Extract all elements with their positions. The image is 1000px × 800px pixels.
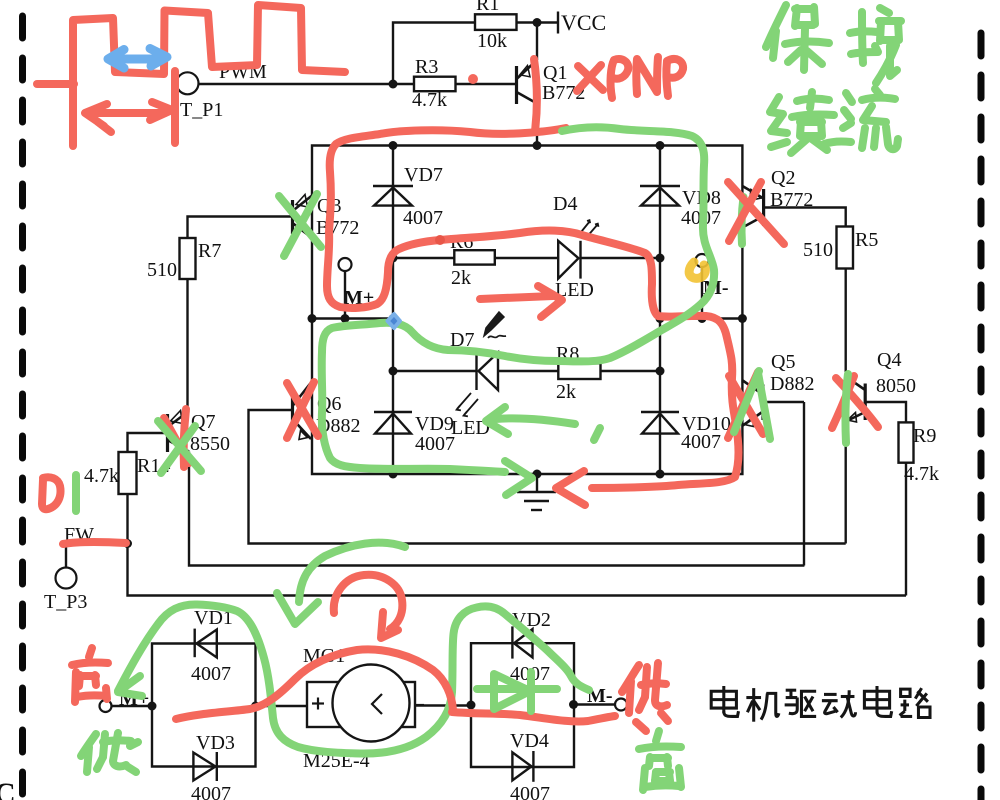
svg-text:C: C (0, 777, 16, 800)
svg-text:4007: 4007 (403, 207, 443, 229)
svg-text:VD7: VD7 (404, 164, 443, 186)
svg-text:B772: B772 (316, 217, 359, 239)
svg-text:VD9: VD9 (415, 413, 454, 435)
svg-text:VD4: VD4 (510, 730, 549, 752)
svg-text:T_P1: T_P1 (180, 99, 223, 121)
svg-text:510: 510 (803, 239, 833, 261)
svg-text:4007: 4007 (415, 433, 455, 455)
svg-text:4.7k: 4.7k (412, 89, 447, 111)
svg-text:4007: 4007 (191, 663, 231, 685)
svg-text:R1: R1 (476, 0, 499, 15)
svg-text:Q4: Q4 (877, 349, 901, 371)
svg-text:4.7k: 4.7k (904, 463, 939, 485)
svg-text:R3: R3 (415, 56, 438, 78)
svg-text:Q1: Q1 (543, 62, 567, 84)
svg-text:B772: B772 (770, 189, 813, 211)
svg-text:D882: D882 (770, 373, 814, 395)
svg-text:D4: D4 (553, 193, 577, 215)
svg-text:VD3: VD3 (196, 732, 235, 754)
svg-text:2k: 2k (556, 381, 576, 403)
svg-text:R9: R9 (913, 425, 936, 447)
svg-text:4007: 4007 (191, 783, 231, 800)
svg-text:R7: R7 (198, 240, 221, 262)
svg-text:10k: 10k (477, 30, 507, 52)
svg-text:8550: 8550 (190, 433, 230, 455)
svg-text:2k: 2k (451, 267, 471, 289)
svg-text:510: 510 (147, 259, 177, 281)
svg-text:4007: 4007 (681, 431, 721, 453)
svg-text:R5: R5 (855, 229, 878, 251)
svg-text:Q2: Q2 (771, 167, 795, 189)
svg-text:Q5: Q5 (771, 351, 795, 373)
svg-text:VCC: VCC (561, 10, 606, 35)
svg-text:8050: 8050 (876, 375, 916, 397)
svg-text:4.7k: 4.7k (84, 465, 119, 487)
svg-text:4007: 4007 (510, 783, 550, 800)
svg-text:T_P3: T_P3 (44, 591, 87, 613)
